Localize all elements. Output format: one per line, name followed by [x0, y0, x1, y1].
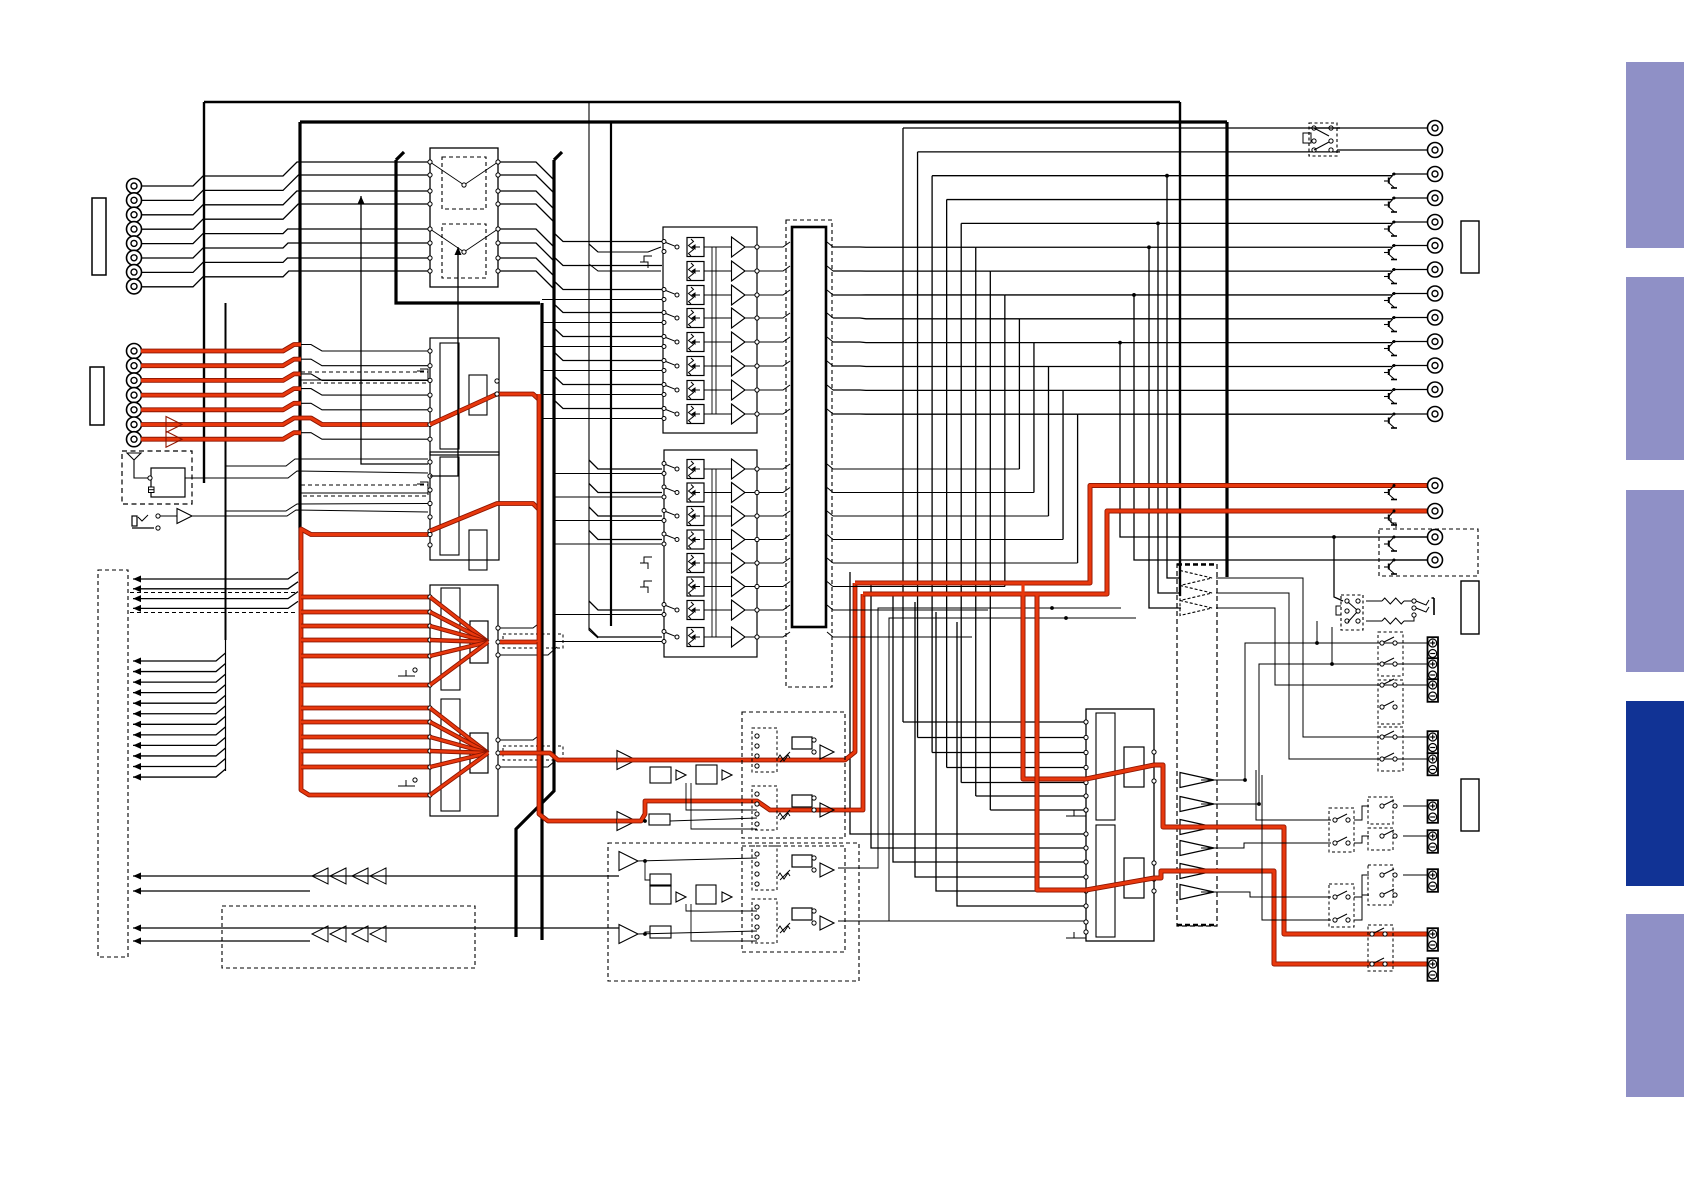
ch2 internal wire: [704, 270, 731, 272]
speaker terminal pair 1: [1428, 637, 1439, 659]
rec out wire R: [1392, 559, 1427, 561]
mic inner box: [151, 468, 185, 497]
ch2-8 post wire b: [827, 632, 833, 637]
ch5 gain pot: [687, 333, 704, 352]
insert pin left: [428, 241, 432, 245]
spk switch c2: [1333, 837, 1350, 845]
footswitch dashed box: [222, 906, 475, 968]
eff4 pot out amp: [820, 916, 834, 930]
eff1 tri b: [722, 770, 732, 780]
mute transistor 4: [1384, 197, 1397, 213]
insert pin right: [496, 202, 500, 206]
red aux send: [301, 529, 428, 595]
ch2 buffer amp: [732, 261, 746, 281]
ch4 out pin: [755, 316, 759, 320]
bus bundle wire B3: [133, 674, 226, 682]
channel block 2: [664, 450, 757, 657]
eff4 pot pot arrow: [780, 923, 790, 933]
amp out wire 5: [1256, 770, 1331, 820]
ch2 out wire: [745, 270, 757, 272]
bus bundle arrow B11: [133, 763, 141, 770]
thick bus branch x=611: [610, 122, 612, 626]
input wire 3 cont: [301, 374, 428, 381]
ch6 input switch: [662, 359, 679, 373]
block1 sense line 2: [715, 247, 717, 414]
ch2-2 buffer amp: [732, 483, 746, 503]
bus wire 12 vertical: [1062, 390, 1064, 539]
bus wire 10 horizontal: [1034, 342, 1392, 344]
bus wire 1 to amp pin: [903, 721, 1086, 723]
speaker switch 895: [1380, 889, 1397, 897]
fader block thick rect: [792, 227, 826, 627]
eff red amp 2: [617, 812, 636, 831]
ph hook 1: [1416, 600, 1429, 605]
eff4 pot out pin a: [812, 909, 816, 913]
wire jack1-3 to insert pin: [141, 191, 428, 215]
speaker switch 806: [1380, 800, 1397, 808]
label box amp: [1461, 779, 1479, 831]
spk switch red 2: [1370, 958, 1387, 966]
ch3 out wire: [745, 294, 757, 296]
ch8 out pin: [755, 412, 759, 416]
ch1 input switch: [662, 240, 679, 254]
insert pin left: [428, 189, 432, 193]
phones lower dot 2: [1330, 662, 1334, 666]
ph pin 4: [1356, 609, 1360, 613]
thick bus vertical x=1227: [1225, 122, 1228, 577]
wire to ch2-8: [589, 628, 662, 637]
eff arrow 4: [133, 938, 141, 945]
power amp block: [1086, 709, 1154, 941]
output jack 11: [1428, 358, 1443, 373]
amp in pin: [1084, 808, 1088, 812]
eff4 pot pin: [755, 915, 759, 919]
ch2-1 lower feed: [554, 473, 662, 475]
ch2-5 out pin: [755, 561, 759, 565]
output wire 10: [1392, 341, 1427, 343]
eff3 pot out amp: [820, 863, 834, 877]
ch2-2 lower feed: [554, 496, 662, 498]
output jack 13: [1428, 407, 1443, 422]
insert pin right: [496, 227, 500, 231]
insert pin left: [428, 269, 432, 273]
eff1 pot pot zigzag: [778, 755, 790, 761]
ch2-6 out pin: [755, 584, 759, 588]
amp gnd pin 1: [1084, 808, 1088, 812]
st input jack 6: [127, 417, 142, 432]
red fan2 diag 6: [430, 753, 488, 795]
ch4 buffer amp: [732, 308, 746, 328]
amp out pin 1: [1152, 750, 1156, 754]
wire insert out 6: [500, 243, 554, 261]
red input amp 1: [166, 417, 182, 433]
fan2 pin 4: [428, 749, 432, 753]
bus wire 1 horizontal: [903, 127, 1340, 129]
sw pin d: [1329, 139, 1333, 143]
amp out wire 4: [1201, 892, 1331, 897]
eff3 pot out pin a: [812, 856, 816, 860]
ch2-7 out pin: [755, 608, 759, 612]
ch2-1 out pin: [755, 467, 759, 471]
sum dashed link 1: [503, 634, 563, 648]
ch6 lower feed: [542, 370, 662, 372]
bus bundle wire B10: [133, 748, 226, 756]
fader dashed box: [786, 220, 832, 687]
mute monitor R: [1384, 510, 1397, 526]
fan2 pin 1: [428, 706, 432, 710]
eff1 box a: [650, 767, 671, 783]
red input wire 6b: [301, 418, 428, 425]
ch2-8 lower feed: [554, 641, 662, 643]
bus bundle arrow B6: [133, 710, 141, 717]
speaker select dashed box 1: [1378, 632, 1403, 676]
eff1 wire: [670, 818, 757, 821]
bus branch x=589: [589, 102, 598, 252]
tap vertical x=1149: [1149, 247, 1181, 608]
ch2-7 input switch: [662, 603, 679, 617]
amp small rect 2: [1124, 858, 1144, 898]
output wire 3: [1392, 173, 1427, 175]
ch5 lower feed: [542, 346, 662, 348]
phone sw pin2: [156, 526, 160, 530]
eff3 box c: [650, 926, 671, 938]
ch2 post wire: [759, 266, 790, 271]
mute transistor 3: [1384, 173, 1397, 189]
amp out pin 4: [1152, 877, 1156, 881]
eff4 pot pin: [755, 905, 759, 909]
ch5 input switch: [662, 335, 679, 349]
insert pin right: [496, 160, 500, 164]
ch8 input switch: [662, 407, 679, 421]
ch2-3 input switch: [662, 509, 679, 523]
amp in pin b: [1084, 904, 1088, 908]
thick bus line y=102: [204, 101, 1180, 103]
red fan1 wire 2: [301, 610, 430, 615]
ch1 post wire: [759, 242, 790, 247]
bus feed wire A3: [133, 592, 298, 599]
ch8 post wire b: [827, 409, 833, 414]
spk red select box 1: [1368, 925, 1393, 971]
eff3 pot out pin b: [812, 868, 816, 872]
ch2-4 input switch: [662, 532, 679, 546]
eff1 pot out amp: [820, 745, 834, 759]
red fan1 diag 6: [430, 642, 488, 685]
ch7 post wire b: [827, 385, 833, 390]
geq out 2: [1216, 593, 1427, 759]
sidebar tab 2: [1626, 277, 1684, 460]
block2 sense line: [711, 469, 713, 637]
eff1 box b: [696, 765, 717, 784]
eff arrow 1: [133, 873, 141, 880]
amp in pin: [1084, 765, 1088, 769]
amp out wire 3: [1201, 843, 1331, 848]
bus bundle wire B5: [133, 695, 226, 703]
bus wire 1 vertical: [902, 128, 904, 722]
red fan1 wire 6: [301, 683, 430, 688]
mute transistor 13: [1384, 413, 1397, 429]
ph wire 2: [1366, 620, 1382, 622]
red input amp 2: [166, 431, 182, 447]
st inner rect 2: [440, 457, 459, 555]
bus feed arrow A4: [133, 605, 141, 612]
tap dot 5: [1118, 341, 1122, 345]
speaker select dashed box 2: [1378, 680, 1403, 724]
output jack 3: [1428, 167, 1443, 182]
bus wire 5 to amp pin: [961, 782, 1086, 784]
bus bundle wire B2: [133, 664, 226, 672]
mute transistor 7: [1384, 268, 1397, 284]
wire insert out 2: [500, 175, 554, 193]
red fan1 diag 5: [430, 642, 488, 656]
eff3 pot pin: [755, 852, 759, 856]
speaker terminal pair 10: [1428, 958, 1439, 981]
phone amp wire: [160, 515, 177, 517]
ch2-4 buffer amp: [732, 530, 746, 550]
phones switch dashed box: [1309, 123, 1337, 156]
amp out pin 5: [1152, 889, 1156, 893]
geq dashed box: [1177, 564, 1217, 926]
amp out pin 2: [1152, 779, 1156, 783]
geq out 1: [1216, 578, 1427, 737]
ch1 internal wire: [704, 246, 731, 248]
ch2-5 gain pot: [687, 554, 704, 573]
eff1 pot switch dashed box: [752, 728, 777, 772]
ch3 post wire: [759, 290, 790, 295]
ch4 out wire: [745, 317, 757, 319]
red power path 1: [1023, 596, 1086, 779]
sum out pin 2c: [496, 765, 500, 769]
eff dashed outer box 2: [742, 846, 845, 952]
long dashed link box 2: [301, 485, 428, 496]
insert pin right: [496, 269, 500, 273]
eff1 junction: [643, 819, 647, 823]
bus wire 13 vertical: [1077, 414, 1079, 563]
bus bundle wire B6: [133, 706, 226, 714]
ch2-7 lower feed: [554, 614, 662, 616]
bus wire 11 left stub: [833, 365, 1049, 368]
bus bundle arrow B1: [133, 658, 141, 665]
sidebar tab 4: [1626, 701, 1684, 886]
wire bus to ch7: [554, 376, 662, 385]
st input block: [430, 338, 499, 455]
mute transistor 8: [1384, 292, 1397, 308]
eff4 pot switch dashed box: [752, 899, 777, 943]
bus bundle arrow B2: [133, 668, 141, 675]
bus bundle wire B9: [133, 737, 226, 745]
eff1 pot level box: [792, 737, 812, 749]
output wire 5: [1392, 221, 1427, 223]
bus feed arrow A1: [133, 576, 141, 583]
ch2 out pin: [755, 269, 759, 273]
ch3 lower feed: [542, 299, 662, 301]
insert contact V B: [430, 229, 498, 252]
thick bus diagonal top x=396: [396, 152, 404, 160]
ch2-1 buffer amp: [732, 459, 746, 479]
wire bus to ch1: [554, 233, 662, 242]
ph pin 5: [1345, 619, 1349, 623]
st2 in pin: [428, 515, 432, 519]
output wire 12: [1392, 389, 1427, 391]
ch8 internal wire: [704, 413, 731, 415]
block2 feed x1: [226, 459, 429, 466]
st input jack 7: [127, 432, 142, 447]
sw pin c: [1312, 139, 1316, 143]
phone sw lever: [138, 515, 148, 521]
sum link wire 2b: [500, 759, 557, 767]
power amp triangle 5: [1180, 864, 1214, 879]
ch2-7 gain pot: [687, 601, 704, 620]
eff3 pot pin: [755, 862, 759, 866]
red fan1 diag 2: [430, 612, 488, 642]
speaker terminal pair 4: [1428, 731, 1439, 753]
output wire 9: [1392, 317, 1427, 319]
input jack 1-3: [127, 207, 142, 222]
ground sym f1: [398, 670, 415, 676]
ch2-8 buffer amp: [732, 627, 746, 647]
sw lever2: [1314, 142, 1329, 150]
amp feed B4: [915, 602, 1086, 877]
fan1 pin 2: [428, 610, 432, 614]
bus wire 5 vertical: [960, 223, 962, 782]
insert pin left: [428, 160, 432, 164]
amp gnd sym 2: [1066, 932, 1086, 938]
ch2-3 internal wire: [704, 515, 731, 517]
eff1 pot pot arrow: [780, 752, 790, 762]
ch2-8 out pin: [755, 635, 759, 639]
ch2 out long wire 1: [833, 468, 1019, 470]
st2 in pin: [428, 474, 432, 478]
bus bundle wire B8: [133, 727, 226, 735]
red fan2 diag 2: [430, 722, 488, 753]
sum inner rect 1: [441, 588, 460, 690]
ph gnd sym: [1391, 518, 1396, 528]
ch6 post wire b: [827, 361, 833, 366]
output jack 2: [1428, 143, 1443, 158]
eff3 pot pin: [755, 882, 759, 886]
eff3 box a: [650, 874, 671, 886]
sw pin a: [1312, 126, 1316, 130]
output jack 8: [1428, 286, 1443, 301]
power amp triangle 4: [1180, 841, 1214, 856]
ch2-4 post wire: [759, 535, 790, 540]
fan2 pin 5: [428, 765, 432, 769]
st input jack 5: [127, 402, 142, 417]
ch7 internal wire: [704, 389, 731, 391]
output jack 9: [1428, 310, 1443, 325]
wire insert out 1: [500, 162, 554, 180]
bus bundle arrow B7: [133, 721, 141, 728]
bus bundle arrow B4: [133, 689, 141, 696]
fan1 pin 4: [428, 638, 432, 642]
amp in pin: [1084, 750, 1088, 754]
long dashed link box 1: [301, 372, 428, 383]
spk switch c4: [1333, 914, 1350, 922]
output wire 1b: [1309, 127, 1340, 129]
ch1 post wire b: [827, 242, 833, 247]
st2 in pin: [428, 529, 432, 533]
st in pin: [428, 393, 432, 397]
st in pin: [428, 422, 432, 426]
st2 in pin: [428, 501, 432, 505]
wire to ch2-1: [589, 460, 662, 469]
amp out wire 6: [1262, 775, 1331, 920]
amp in pin: [1084, 735, 1088, 739]
ground sym f2: [398, 780, 415, 786]
eff3 out a: [637, 858, 757, 861]
red power path 2b: [1086, 871, 1427, 964]
red fan2 diag 4: [430, 751, 488, 753]
tap vertical x=1134: [1134, 295, 1427, 560]
amp out wire 2: [1201, 664, 1427, 804]
insert pin left: [428, 202, 432, 206]
ch8 out wire: [745, 413, 757, 415]
ch2-7 post wire b: [827, 605, 833, 610]
tap vertical x=1158: [1158, 223, 1181, 593]
eff3 out b: [637, 931, 757, 934]
red fan1 diag 3: [430, 626, 488, 642]
ch2-8 gain pot: [687, 628, 704, 647]
mute transistor 9: [1384, 316, 1397, 332]
bus wire 2 vertical: [917, 152, 919, 738]
ground cap symbol 2b: [640, 581, 652, 593]
st in pin: [428, 437, 432, 441]
speaker select dashed box 4: [1368, 797, 1393, 824]
insert pin right: [496, 173, 500, 177]
condenser mic dashed box: [122, 451, 192, 504]
mic antenna: [127, 453, 148, 478]
label box inputs B: [90, 367, 104, 425]
bus wire 6 vertical: [975, 247, 977, 796]
ch2-6 buffer amp: [732, 577, 746, 597]
eff1 pot pin: [755, 744, 759, 748]
red fan1 wire 1: [301, 595, 430, 600]
eff4 pot level box: [792, 908, 812, 920]
bus feed arrow A3: [133, 595, 141, 602]
ch2-4 gain pot: [687, 530, 704, 549]
ch3 input switch: [662, 288, 679, 302]
eff3 pot level box: [792, 855, 812, 867]
sum block: [430, 585, 498, 816]
ch1 out pin: [755, 245, 759, 249]
mic pin sq: [149, 487, 155, 493]
fan2 pin 2: [428, 720, 432, 724]
bus bundle wire B12: [133, 769, 226, 777]
sum out pin 1b: [496, 626, 500, 630]
thick bus vertical x=554: [516, 160, 554, 937]
ch7 out wire: [745, 389, 757, 391]
eff2 pot pin: [755, 822, 759, 826]
eff return wire 1: [133, 875, 619, 877]
ch2-3 post wire: [759, 511, 790, 516]
amp feed B5: [936, 612, 1086, 891]
ph resistor 2: [1382, 618, 1404, 624]
phones feed dot: [1332, 535, 1336, 539]
sw link 4: [1354, 895, 1369, 920]
ch3 buffer amp: [732, 285, 746, 305]
ph out pin 1: [1412, 599, 1416, 603]
red path block B: [430, 504, 540, 532]
bus wire 13 left stub: [833, 413, 1078, 415]
ch2-6 internal wire: [704, 586, 731, 588]
ch2 out long wire 5: [833, 562, 1078, 564]
eff return wire 2: [133, 890, 310, 892]
ch2-2 out wire: [745, 492, 757, 494]
speaker switch 836: [1380, 830, 1397, 838]
amp in pin: [1084, 720, 1088, 724]
ch2-2 post wire: [759, 488, 790, 493]
ch2-8 input switch: [662, 630, 679, 644]
ch5 internal wire: [704, 341, 731, 343]
